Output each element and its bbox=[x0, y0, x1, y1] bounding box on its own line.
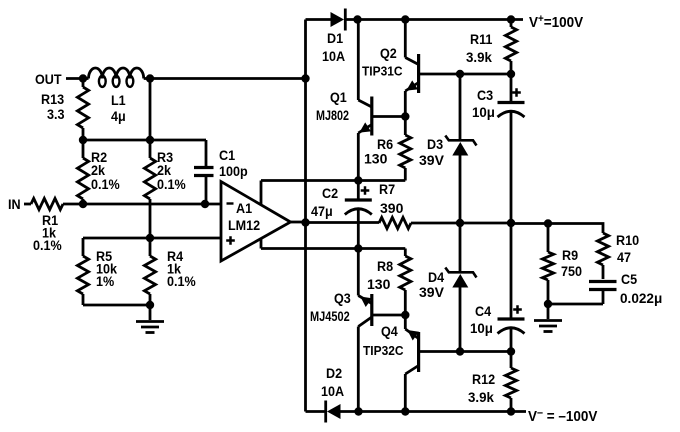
svg-text:A1: A1 bbox=[236, 200, 253, 216]
capacitor C5 bbox=[548, 282, 617, 305]
label R6 value 130 bbox=[364, 151, 388, 167]
label R11 bbox=[470, 31, 493, 47]
label D1 bbox=[327, 30, 344, 46]
svg-text:MJ4502: MJ4502 bbox=[310, 309, 350, 325]
wire: R6 bottom lead line bbox=[358, 179, 405, 182]
label R2 bbox=[91, 149, 107, 165]
svg-text:L1: L1 bbox=[111, 92, 126, 108]
label R10 value 47 bbox=[617, 249, 631, 265]
capacitor C2 bbox=[345, 181, 372, 249]
label Q3 bbox=[334, 290, 351, 306]
label R12 value 3.9k bbox=[468, 390, 494, 405]
transistor Q4 TIP32C bbox=[405, 315, 511, 412]
svg-text:3.3: 3.3 bbox=[47, 106, 65, 122]
label V+ = 100V bbox=[529, 14, 584, 32]
ground symbol below R9 bbox=[534, 303, 562, 332]
resistor R6 bbox=[400, 117, 411, 181]
resistor R1 bbox=[31, 198, 83, 209]
svg-text:130: 130 bbox=[367, 276, 391, 292]
wire: output bus to C3/C4 column bbox=[460, 222, 511, 225]
node: Q3 collector on V- rail bbox=[354, 407, 362, 415]
svg-text:0.1%: 0.1% bbox=[157, 176, 186, 192]
svg-text:D3: D3 bbox=[427, 136, 443, 152]
node: R13 bottom / R2 top bbox=[79, 136, 87, 144]
label R1 bbox=[42, 212, 59, 228]
wire: output bus to R9 bbox=[511, 222, 548, 225]
svg-text:3.9k: 3.9k bbox=[468, 390, 494, 405]
capacitor C3 bbox=[498, 74, 525, 223]
svg-text:OUT: OUT bbox=[35, 71, 62, 87]
svg-text:C4: C4 bbox=[475, 303, 492, 319]
label R4 tolerance 0.1% bbox=[167, 273, 196, 289]
svg-text:R12: R12 bbox=[472, 371, 495, 387]
label D1 value 10A bbox=[322, 48, 345, 64]
node: Q3 emitter / C2 bottom / V- pin node bbox=[354, 244, 362, 252]
svg-text:R13: R13 bbox=[41, 91, 64, 107]
resistor R12 bbox=[505, 352, 516, 412]
resistor R8 bbox=[400, 249, 411, 316]
label A1 bbox=[236, 200, 253, 216]
svg-text:C2: C2 bbox=[322, 185, 338, 201]
label R5 tolerance 1% bbox=[96, 273, 114, 289]
label R5 bbox=[96, 248, 113, 264]
node: OUT / R13 / L1 junction bbox=[79, 74, 87, 82]
resistor R7 390 bbox=[379, 217, 411, 228]
label Q2 bbox=[380, 45, 397, 61]
op-amp minus sign bbox=[227, 202, 234, 204]
svg-text:0.1%: 0.1% bbox=[167, 273, 196, 289]
ground symbol below R4 bbox=[136, 304, 164, 333]
node: D3/D4 on output bus bbox=[456, 219, 464, 227]
node: Q4 collector on V- rail bbox=[401, 407, 409, 415]
inductor L1 bbox=[83, 68, 150, 87]
label C1 bbox=[219, 147, 236, 163]
label Q1 bbox=[330, 89, 347, 105]
label C1 value 100p bbox=[219, 163, 248, 179]
wire: op-amp V+ supply pin bbox=[260, 181, 263, 206]
svg-text:R7: R7 bbox=[379, 181, 395, 197]
label L1 value 4u bbox=[111, 108, 126, 124]
node: L1 right / OUT line junction bbox=[146, 74, 154, 82]
svg-text:4μ: 4μ bbox=[111, 108, 126, 124]
svg-text:0.1%: 0.1% bbox=[91, 176, 120, 192]
wire: non-inverting input line bbox=[83, 237, 221, 240]
label R13 value 3.3 bbox=[47, 106, 65, 122]
label C3 value 10u bbox=[472, 105, 495, 120]
node: R3/R4 junction on +input bbox=[146, 234, 154, 242]
svg-text:D2: D2 bbox=[326, 365, 342, 381]
label R3 tolerance 0.1% bbox=[157, 176, 186, 192]
label D3 value 39V bbox=[419, 152, 445, 168]
wire: V+ supply line to C2/Q1 emitter node bbox=[261, 179, 358, 182]
label R1 value 1k bbox=[42, 225, 57, 241]
wire: OUT line to output column bbox=[150, 77, 306, 80]
label R2 value 2k bbox=[91, 162, 106, 178]
label Q1 part MJ802 bbox=[316, 108, 349, 124]
node: R4 bottom / ground junction bbox=[146, 301, 154, 309]
label R8 bbox=[377, 258, 393, 274]
wire: L1 right vertical to top line bbox=[149, 79, 152, 141]
node: C3/C4 on output bus bbox=[507, 219, 515, 227]
transistor Q2 TIP31C bbox=[405, 20, 460, 117]
svg-text:C3: C3 bbox=[477, 87, 493, 103]
svg-text:10A: 10A bbox=[321, 383, 344, 399]
svg-text:D1: D1 bbox=[327, 30, 344, 46]
svg-text:C1: C1 bbox=[219, 147, 236, 163]
label C2 value 47u bbox=[311, 203, 333, 219]
label R3 value 2k bbox=[157, 162, 172, 178]
svg-text:0.022μ: 0.022μ bbox=[620, 291, 662, 306]
label D4 bbox=[428, 269, 445, 285]
label R11 value 3.9k bbox=[466, 50, 492, 65]
svg-text:100p: 100p bbox=[219, 163, 248, 179]
wire: op-amp output stub bbox=[290, 221, 306, 224]
node: R9 top on output bus bbox=[544, 219, 552, 227]
node: R3 top / line junction bbox=[146, 136, 154, 144]
label LM12 bbox=[228, 217, 260, 233]
label R9 bbox=[562, 247, 578, 263]
svg-text:TIP32C: TIP32C bbox=[363, 344, 404, 359]
diode D2 bbox=[326, 401, 341, 423]
svg-text:Q2: Q2 bbox=[380, 45, 397, 61]
resistor R4 bbox=[144, 238, 155, 305]
svg-text:39V: 39V bbox=[419, 152, 445, 168]
resistor R3 bbox=[144, 140, 155, 238]
node: Q2 collector on V+ rail bbox=[401, 15, 409, 23]
node: output bus at output column bbox=[301, 218, 309, 226]
node: OUT line meets output column bbox=[301, 74, 309, 82]
label R13 bbox=[41, 91, 64, 107]
wire: R5/R4 bottom line bbox=[83, 304, 150, 307]
svg-text:10μ: 10μ bbox=[470, 321, 493, 336]
node: Q1 collector on V+ rail bbox=[353, 15, 361, 23]
svg-text:1%: 1% bbox=[96, 273, 114, 289]
label D3 bbox=[427, 136, 443, 152]
svg-text:V+=100V: V+=100V bbox=[529, 14, 584, 32]
wire: OUT terminal stub bbox=[66, 77, 83, 80]
label R9 value 750 bbox=[561, 263, 582, 279]
svg-text:Q3: Q3 bbox=[334, 290, 351, 306]
zener diode D3 bbox=[445, 74, 476, 223]
svg-text:IN: IN bbox=[8, 196, 21, 212]
transistor Q1 MJ802 bbox=[358, 20, 405, 181]
node: Q1 emitter / C2 top / V+ pin node bbox=[354, 176, 362, 184]
node: D3 top on Q2 base line bbox=[456, 70, 464, 78]
label R7 value 390 bbox=[380, 200, 404, 216]
svg-text:39V: 39V bbox=[419, 284, 445, 300]
label Q3 part MJ4502 bbox=[310, 309, 350, 325]
wire: V+ rail stub from output column to D1 anode bbox=[306, 18, 332, 21]
wire: output bus from R7 to D3/D4 column bbox=[411, 222, 460, 225]
resistor R11 bbox=[505, 20, 516, 75]
svg-text:R11: R11 bbox=[470, 31, 493, 47]
node: C4 bottom / R12 top bbox=[507, 347, 515, 355]
label OUT terminal bbox=[35, 71, 62, 87]
svg-text:R9: R9 bbox=[562, 247, 578, 263]
wire: Q2 base line to R11 bottom bbox=[460, 73, 511, 76]
node: D4 bottom on Q4 base line bbox=[456, 347, 464, 355]
wire: V- rail from D2 anode to V- terminal bbox=[341, 410, 527, 413]
svg-text:10A: 10A bbox=[322, 48, 345, 64]
wire: op-amp V- supply pin bbox=[260, 239, 263, 249]
label R12 bbox=[472, 371, 495, 387]
resistor R9 bbox=[542, 224, 553, 305]
svg-text:TIP31C: TIP31C bbox=[362, 64, 403, 79]
label R4 value 1k bbox=[167, 261, 182, 277]
label C5 value 0.022u bbox=[620, 291, 662, 306]
svg-text:D4: D4 bbox=[428, 269, 445, 285]
svg-text:750: 750 bbox=[561, 263, 582, 279]
label Q4 part TIP32C bbox=[363, 344, 404, 359]
op-amp plus sign bbox=[226, 236, 235, 245]
label R10 bbox=[616, 232, 639, 248]
label C5 bbox=[621, 271, 638, 287]
svg-text:R8: R8 bbox=[377, 258, 393, 274]
label C4 bbox=[475, 303, 492, 319]
label Q4 bbox=[381, 323, 398, 339]
node: Q1 base / Q2 emitter / R6 node bbox=[401, 112, 409, 120]
svg-text:Q1: Q1 bbox=[330, 89, 347, 105]
capacitor C1 bbox=[194, 140, 214, 204]
label R7 bbox=[379, 181, 395, 197]
svg-text:47: 47 bbox=[617, 249, 631, 265]
wire: output bus to R10 corner bbox=[548, 224, 603, 234]
resistor R5 bbox=[77, 238, 88, 305]
wire: IN stub bbox=[24, 203, 31, 206]
svg-text:C5: C5 bbox=[621, 271, 638, 287]
svg-text:0.1%: 0.1% bbox=[33, 237, 62, 253]
wire: V+ rail from D1 cathode to V+ terminal bbox=[345, 18, 524, 21]
svg-text:47μ: 47μ bbox=[311, 203, 333, 219]
label D2 bbox=[326, 365, 342, 381]
resistor R10 bbox=[597, 233, 608, 279]
label C4 value 10u bbox=[470, 321, 493, 336]
label L1 bbox=[111, 92, 126, 108]
svg-text:LM12: LM12 bbox=[228, 217, 260, 233]
node: R1/R2 junction bbox=[79, 200, 87, 208]
wire: inverting input line bbox=[83, 203, 221, 206]
label R6 bbox=[377, 136, 393, 152]
svg-text:10μ: 10μ bbox=[472, 105, 495, 120]
node: C1 bottom junction bbox=[201, 200, 209, 208]
diode D1 bbox=[331, 9, 346, 31]
wire: output bus from op-amp to R7 bbox=[306, 221, 380, 224]
node: Q3 base / Q4 emitter / R8 node bbox=[401, 311, 409, 319]
op-amp A1 LM12 bbox=[221, 182, 291, 262]
zener diode D4 bbox=[445, 223, 476, 352]
label Q2 part TIP31C bbox=[362, 64, 403, 79]
resistor R13 bbox=[77, 79, 88, 141]
label R2 tolerance 0.1% bbox=[91, 176, 120, 192]
svg-text:Q4: Q4 bbox=[381, 323, 398, 339]
transistor Q3 MJ4502 bbox=[358, 249, 405, 412]
label V- = -100V bbox=[528, 407, 598, 426]
node: R11 top on V+ rail bbox=[507, 15, 515, 23]
svg-text:130: 130 bbox=[364, 151, 388, 167]
svg-text:R10: R10 bbox=[616, 232, 639, 248]
label C3 bbox=[477, 87, 493, 103]
svg-text:390: 390 bbox=[380, 200, 404, 216]
svg-text:3.9k: 3.9k bbox=[466, 50, 492, 65]
wire: V- rail stub from output column to D2 cathode bbox=[306, 410, 327, 413]
wire: R8 top lead line bbox=[358, 247, 405, 250]
node: R9 bottom / C5 return junction bbox=[544, 300, 552, 308]
label R8 value 130 bbox=[367, 276, 391, 292]
capacitor C4 bbox=[498, 223, 525, 352]
label R5 value 10k bbox=[96, 261, 118, 277]
label R4 bbox=[167, 248, 184, 264]
node: R11 bottom / C3 top bbox=[507, 70, 515, 78]
label R1 tolerance 0.1% bbox=[33, 237, 62, 253]
label D2 value 10A bbox=[321, 383, 344, 399]
label IN terminal bbox=[8, 196, 21, 212]
wire: R13/R2/R3/C1 top line bbox=[83, 139, 206, 142]
wire: V- supply line to C2/Q3 emitter node bbox=[261, 247, 358, 250]
label R3 bbox=[157, 149, 173, 165]
resistor R2 bbox=[77, 140, 88, 204]
label D4 value 39V bbox=[419, 284, 445, 300]
label C2 bbox=[322, 185, 338, 201]
node: R12 bottom on V- rail bbox=[507, 407, 515, 415]
svg-text:MJ802: MJ802 bbox=[316, 108, 349, 124]
wire: output column vertical (D1 anode to D2 cathode) bbox=[304, 20, 307, 412]
